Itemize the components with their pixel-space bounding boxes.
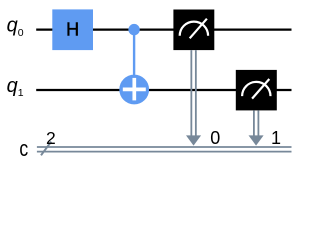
svg-text:1: 1 [271, 128, 281, 148]
svg-text:q1: q1 [7, 75, 24, 99]
qubit wire q1 [36, 89, 291, 91]
CNOT target on q1 [119, 75, 149, 105]
svg-text:0: 0 [210, 128, 220, 148]
measure M1 symbol [242, 79, 270, 99]
measure M1 box [236, 70, 277, 111]
measure M0 box [173, 10, 214, 51]
classical register size slash [41, 142, 51, 156]
svg-text:2: 2 [46, 128, 56, 148]
CNOT vertical line [133, 30, 135, 90]
measure M0 arrow to c [186, 50, 201, 146]
CNOT control dot on q0 [128, 24, 139, 35]
svg-text:H: H [66, 20, 79, 40]
measure M1 arrow to c [249, 110, 264, 145]
measure M0 symbol [180, 19, 208, 39]
svg-text:c: c [19, 137, 28, 161]
classical wire c (double line) [37, 147, 292, 152]
gate H (hadamard) on q0 [52, 9, 93, 50]
svg-text:q0: q0 [7, 15, 24, 39]
qubit wire q0 [36, 29, 291, 31]
